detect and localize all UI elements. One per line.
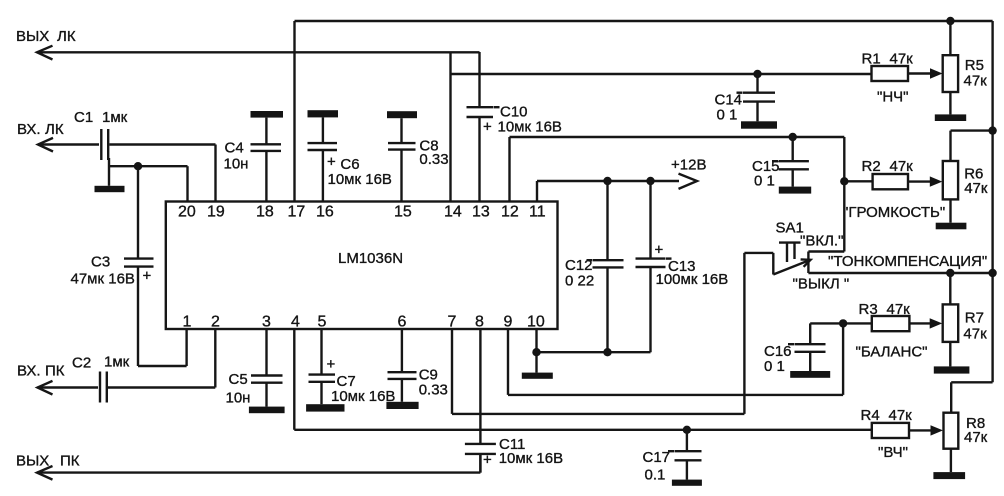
svg-text:C17: C17 [643,449,671,466]
svg-text:C4: C4 [225,140,244,157]
svg-text:10: 10 [527,314,545,331]
capacitor C14 [715,74,776,124]
node +12В arrow [671,157,706,189]
svg-text:15: 15 [394,204,412,221]
node junction C17 [683,426,691,434]
wire ВХ ЛК input with arrow [38,138,99,152]
node junction R6 link / rail [988,126,996,134]
svg-text:+: + [655,242,664,259]
svg-text:R7: R7 [965,310,984,327]
svg-text:+: + [483,119,492,136]
wiper arrow into R5 [930,68,943,78]
resistor R2 [843,158,945,221]
svg-text:10мк 16В: 10мк 16В [328,171,392,188]
node junction C12 bottom [603,348,611,356]
svg-text:9: 9 [504,314,513,331]
svg-text:LM1036N: LM1036N [338,250,403,267]
capacitor C6 [308,117,392,188]
resistor R1 [862,51,932,106]
node ВЫХ ПК label [16,453,80,470]
svg-text:+12В: +12В [671,157,706,174]
svg-text:ВЫХ: ВЫХ [16,28,49,45]
ground below C7 [306,404,344,411]
node junction C14 [753,70,761,78]
svg-text:17: 17 [288,204,306,221]
svg-text:ВХ.: ВХ. [17,121,41,138]
svg-text:+: + [327,356,336,373]
capacitor C15 [752,137,809,190]
wire C3 bottom to pin 1 [138,267,187,366]
ground bar above C8 [387,111,417,118]
svg-text:ВХ.: ВХ. [17,363,41,380]
svg-text:1мк: 1мк [104,354,130,371]
svg-text:10н: 10н [224,156,249,173]
svg-text:"ВКЛ.": "ВКЛ." [800,233,843,250]
wire pin 7 to SA1 pole [452,329,744,414]
potentiometer R8 [944,413,988,472]
capacitor C5 [226,329,283,407]
svg-text:0 1: 0 1 [764,358,785,375]
resistor R4 [861,407,932,461]
ground near C1 [95,186,125,192]
capacitor C9 [388,329,448,402]
wire volume row pin 12 to R2 [510,137,873,202]
ground below R8 [933,472,965,479]
svg-text:C1: C1 [74,109,93,126]
wire ВХ ПК input with arrow [38,381,99,395]
wire junction to C3 [137,166,139,258]
svg-text:11: 11 [529,204,546,221]
capacitor C3 [71,254,154,288]
wire pin 9 to balance junction [508,329,843,395]
svg-text:ЛК: ЛК [45,121,64,138]
wire pin 13 / C10 upper stem [478,52,480,107]
node junction pin10 ground [532,348,540,356]
svg-text:47мк 16В: 47мк 16В [71,271,135,288]
svg-text:"ТОНКОМПЕНСАЦИЯ": "ТОНКОМПЕНСАЦИЯ" [828,253,987,270]
ground below R6 [936,223,967,230]
resistor R3 [843,301,930,361]
node junction R2/SA1 [840,177,848,185]
ground below C16 [790,371,830,378]
ground below pin 10 [522,373,553,379]
svg-text:5: 5 [318,314,327,331]
node junction C3 top [134,162,142,170]
capacitor C4 [224,118,282,173]
ground bar above C6 [308,110,339,117]
wire pin 4 to R4 [294,329,872,430]
svg-text:1мк: 1мк [102,109,128,126]
svg-text:1: 1 [183,314,192,331]
svg-text:C3: C3 [91,254,110,271]
node junction rail loudness [988,269,996,277]
ground below R7 [934,366,970,373]
svg-text:19: 19 [207,204,225,221]
ground below C15 [779,187,811,194]
wire pin 10 to ground and C12/C13 [537,329,651,373]
wiper arrow into R8 [931,425,944,435]
ground below C17 [672,480,702,486]
switch SA1 [773,220,849,293]
svg-text:"ВЫКЛ ": "ВЫКЛ " [793,276,850,293]
node junction R3/C16 [839,319,847,327]
wire pin 14 vertical to output line [449,52,451,202]
wiper arrow into R7 [930,318,943,328]
node ВЫХ ЛК label [16,28,76,45]
svg-text:10мк 16В: 10мк 16В [499,450,563,467]
svg-text:12: 12 [501,204,519,221]
svg-text:R2: R2 [862,158,881,175]
svg-text:3: 3 [262,314,271,331]
potentiometer R7 [943,273,987,366]
svg-text:"БАЛАНС": "БАЛАНС" [856,344,928,361]
ground bar above C4 [251,111,284,118]
node junction C13 top [646,177,654,185]
wire bass row pin14 to R1 [451,73,872,75]
svg-text:0.33: 0.33 [419,151,448,168]
svg-text:+: + [483,452,492,469]
wire C10 to pin 13 [478,117,480,202]
svg-text:16: 16 [316,204,334,221]
svg-text:0.33: 0.33 [419,382,448,399]
ground below C14 [741,121,777,128]
capacitor C2 [72,354,130,403]
wire +12V from pin 11 [537,181,679,202]
potentiometer R6 [943,131,993,223]
wire C6 to pin 16 [322,150,324,202]
svg-text:10н: 10н [226,390,251,407]
svg-text:ПК: ПК [60,453,80,470]
ground below C5 [249,407,285,414]
svg-text:0 1: 0 1 [717,107,738,124]
potentiometer R5 [943,21,987,114]
svg-text:2: 2 [211,314,220,331]
node junction C12 top [603,177,611,185]
svg-text:6: 6 [398,314,407,331]
svg-text:4: 4 [291,314,300,331]
capacitor C13 [636,181,729,352]
ground below R5 [935,114,966,121]
svg-text:"ВЧ": "ВЧ" [878,444,908,461]
svg-text:20: 20 [178,204,196,221]
node ВХ. ПК label [17,363,65,380]
svg-text:8: 8 [475,314,484,331]
wire SA1 to R2 junction [808,181,844,273]
capacitor C16 [764,323,843,375]
svg-text:13: 13 [472,204,490,221]
svg-text:C5: C5 [229,371,248,388]
wire SA1 pole to pin 7 line [744,253,773,414]
svg-text:ПК: ПК [45,363,65,380]
capacitor C11 [465,329,563,473]
svg-text:ВЫХ: ВЫХ [16,453,49,470]
wire C1 to pin 19 [110,145,216,202]
svg-text:C2: C2 [72,355,91,372]
svg-text:47к: 47к [964,73,988,90]
svg-text:0.1: 0.1 [645,467,666,484]
wire pin 17 to top rail [295,21,993,202]
svg-text:47к: 47к [964,429,988,446]
ground below C9 [386,402,418,409]
capacitor C7 [309,329,396,405]
svg-text:7: 7 [448,314,457,331]
wire C2 to pin 2 [108,329,215,388]
svg-text:47к: 47к [889,407,913,424]
svg-text:14: 14 [444,204,462,221]
wire ВЫХ ПК output with arrow [37,454,480,480]
svg-text:+: + [143,268,152,285]
svg-text:"ГРОМКОСТЬ": "ГРОМКОСТЬ" [843,204,945,221]
capacitor C12 [565,181,624,352]
capacitor C8 [388,118,449,168]
node junction top rail / R5 [946,17,954,25]
wire R3 junction down to pin 9 line [842,323,844,395]
svg-text:0 22: 0 22 [565,273,594,290]
IC top pin numbers [178,204,546,221]
svg-text:C12: C12 [565,257,593,274]
svg-text:10мк 16В: 10мк 16В [331,388,395,405]
capacitor C1 [74,109,128,160]
svg-text:R4: R4 [861,407,880,424]
svg-text:0 1: 0 1 [754,173,775,190]
wire right vertical rail [951,21,992,413]
capacitor C10 [467,104,562,136]
svg-text:47к: 47к [963,326,987,343]
node junction C15 [789,133,797,141]
wiper arrow into R6 [930,176,943,186]
wire ground net of pin 20 [109,158,188,202]
svg-text:47к: 47к [964,180,988,197]
svg-text:"НЧ": "НЧ" [877,89,908,106]
svg-text:ЛК: ЛК [57,28,76,45]
svg-text:18: 18 [256,204,274,221]
svg-text:10мк 16В: 10мк 16В [498,119,562,136]
svg-text:+: + [327,154,336,171]
svg-text:47к: 47к [890,158,914,175]
wire ВЫХ ЛК output line with arrow [37,46,480,60]
capacitor C17 [643,430,702,484]
wire C4 to pin 18 [265,151,267,202]
svg-text:100мк 16В: 100мк 16В [656,271,729,288]
IC U1 LM1036N body [166,202,558,330]
node ТОНКОМПЕНСАЦИЯ label [828,253,987,270]
wire C8 to pin 15 [400,150,402,202]
svg-text:R5: R5 [965,57,984,74]
IC bottom pin numbers [183,314,545,331]
node ВХ. ЛК label [17,121,64,138]
wire loudness line to right rail [808,272,992,274]
node junction R7 top [946,269,954,277]
